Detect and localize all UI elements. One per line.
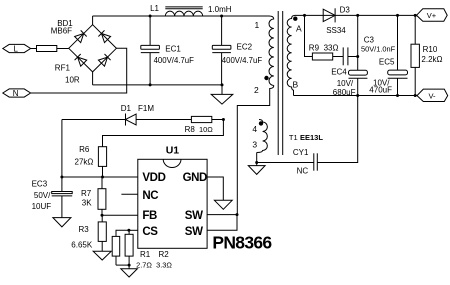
svg-text:L1: L1: [150, 4, 159, 13]
svg-text:3.3Ω: 3.3Ω: [156, 260, 172, 269]
wire primary DC- rail: [93, 84, 222, 86]
junction node EC5 bottom: [396, 94, 399, 97]
svg-text:U1: U1: [166, 144, 180, 156]
svg-text:B: B: [293, 80, 299, 90]
junction node R10 top: [414, 14, 417, 17]
wire RF1 to bridge: [57, 48, 69, 50]
label BD1 MB6F: [51, 19, 74, 36]
resistor R10: [411, 15, 419, 95]
svg-text:NC: NC: [142, 190, 158, 202]
svg-text:N: N: [13, 89, 19, 98]
svg-text:4: 4: [252, 124, 257, 134]
wire L to RF1: [31, 48, 37, 50]
svg-text:6.65K: 6.65K: [71, 241, 93, 250]
capacitor CY1: [314, 153, 318, 170]
svg-text:33Ω: 33Ω: [324, 43, 339, 52]
diode D1: [126, 114, 137, 126]
wire aux pin3 down: [256, 153, 258, 163]
label EC3: [32, 180, 52, 211]
phase dot secondary: [293, 17, 297, 21]
bridge diode lower-left: [75, 54, 87, 66]
svg-text:SW: SW: [185, 226, 203, 238]
svg-text:T1: T1: [289, 133, 298, 142]
wire SW upper to node: [207, 214, 237, 216]
svg-text:C3: C3: [364, 35, 375, 44]
svg-text:CY1: CY1: [293, 148, 309, 157]
svg-text:SW: SW: [185, 210, 203, 222]
svg-text:FB: FB: [142, 210, 157, 222]
svg-text:L: L: [13, 44, 18, 53]
svg-text:EE13L: EE13L: [300, 133, 323, 142]
svg-text:R3: R3: [79, 225, 90, 234]
junction node primary ground: [221, 83, 224, 86]
wire VDD rail to U1: [62, 176, 138, 178]
ground U1 GND: [214, 200, 232, 209]
label RF1 10R: [55, 64, 80, 85]
wire D1 anode side: [136, 119, 191, 121]
svg-text:1: 1: [255, 20, 260, 30]
svg-text:VDD: VDD: [142, 172, 165, 184]
junction node A/R9: [303, 14, 306, 17]
wire CS to R1: [116, 230, 129, 236]
svg-text:V+: V+: [427, 11, 437, 20]
resistor R9: [312, 53, 332, 60]
svg-text:3K: 3K: [82, 198, 92, 207]
capacitor EC4: [349, 15, 368, 95]
junction node EC5 top: [396, 14, 399, 17]
ground EC3: [53, 218, 71, 227]
wire C3 to D3 cathode column: [348, 56, 358, 58]
svg-text:R2: R2: [159, 250, 170, 259]
wire R7 to FB: [101, 209, 103, 215]
svg-text:EC2: EC2: [237, 43, 253, 52]
connector L (AC live input): [3, 44, 31, 53]
ground R1 R2: [121, 265, 138, 277]
junction node EC1/rail: [149, 15, 152, 18]
wire CS to R2: [128, 230, 130, 234]
diode D3: [323, 8, 335, 22]
resistor R3: [98, 215, 106, 241]
junction node R1R2 ground: [128, 264, 131, 267]
svg-text:400V/4.7uF: 400V/4.7uF: [154, 56, 195, 65]
bridge rectifier BD1 outline: [69, 25, 117, 72]
wire node A to R9: [305, 15, 313, 56]
connector N (AC neutral input): [3, 89, 31, 98]
svg-text:2: 2: [254, 85, 259, 95]
junction node C3/EC4 column: [356, 55, 359, 58]
junction node EC3/VDD: [60, 176, 63, 179]
svg-text:10V/: 10V/: [337, 79, 354, 88]
capacitor EC2: [212, 16, 231, 85]
wire R9 to C3: [333, 56, 344, 58]
svg-text:EC4: EC4: [331, 68, 347, 77]
label R8 10Ω: [185, 125, 214, 134]
junction node SW: [236, 213, 239, 216]
svg-text:CS: CS: [142, 226, 158, 238]
svg-text:NC: NC: [297, 167, 309, 176]
svg-text:10UF: 10UF: [32, 202, 52, 211]
wire GND pin to ground: [207, 177, 223, 200]
svg-text:50V/: 50V/: [34, 191, 51, 200]
svg-text:A: A: [296, 23, 302, 33]
resistor R6: [98, 147, 106, 167]
junction node R6/VDD: [101, 176, 104, 179]
svg-text:3: 3: [252, 140, 257, 150]
wire bridge bottom to DC- rail: [92, 72, 94, 85]
wire primary pin2 to SW: [237, 86, 273, 215]
svg-text:400V/4.7uF: 400V/4.7uF: [222, 56, 263, 65]
resistor RF1: [37, 46, 57, 52]
capacitor C3 (snubber): [343, 47, 348, 65]
svg-text:RF1: RF1: [55, 64, 71, 73]
wire CS to U1: [129, 229, 138, 231]
transformer T1 core: [278, 11, 283, 155]
svg-text:R1: R1: [140, 250, 151, 259]
transformer T1 secondary winding: [287, 16, 294, 96]
svg-text:V-: V-: [428, 92, 436, 101]
transformer T1 primary winding: [269, 19, 274, 86]
junction node R10 bottom: [414, 94, 417, 97]
svg-text:EC1: EC1: [165, 44, 181, 53]
resistor R8: [191, 116, 211, 122]
junction node FB: [101, 214, 104, 217]
svg-text:EC5: EC5: [379, 57, 395, 66]
wire VDD node vertical: [61, 120, 63, 178]
wire secondary top rail: [295, 14, 417, 16]
svg-text:470uF: 470uF: [369, 86, 392, 95]
ground R3: [93, 241, 111, 260]
svg-text:R9: R9: [309, 43, 320, 52]
svg-text:R8: R8: [185, 125, 196, 134]
wire R1 R2 bottoms: [116, 256, 129, 265]
wire R8 to aux winding pin 4: [212, 119, 224, 121]
wire secondary bottom rail: [294, 95, 418, 97]
svg-text:R10: R10: [423, 45, 438, 54]
svg-text:EC3: EC3: [32, 180, 48, 189]
svg-text:MB6F: MB6F: [51, 27, 72, 36]
label T1 EE13L: [289, 133, 323, 142]
junction node aux ground: [255, 161, 258, 164]
svg-text:50V/1.0nF: 50V/1.0nF: [361, 45, 396, 54]
transformer T1 aux winding: [257, 120, 268, 153]
resistor R7: [98, 177, 106, 209]
ground aux/CY1: [248, 163, 265, 175]
svg-text:10R: 10R: [65, 75, 80, 84]
phase dot aux: [259, 121, 263, 125]
inductor L1: [165, 7, 202, 16]
svg-text:D3: D3: [340, 6, 351, 15]
capacitor EC1: [141, 16, 160, 85]
junction node D3 cathode: [356, 14, 359, 17]
phase dot primary: [264, 76, 268, 80]
connector V+ output: [417, 9, 448, 21]
svg-text:27kΩ: 27kΩ: [75, 157, 94, 166]
resistor R1: [112, 236, 120, 256]
connector V- output: [417, 89, 448, 101]
svg-text:R7: R7: [81, 189, 92, 198]
resistor R2: [125, 234, 133, 256]
svg-text:PN8366: PN8366: [212, 232, 272, 252]
svg-text:R6: R6: [79, 145, 90, 154]
wire CY1 to secondary ground: [317, 96, 357, 163]
svg-text:F1M: F1M: [138, 104, 154, 113]
op-amp U1 PN8366 body: [138, 159, 207, 248]
label R9 33Ω: [309, 43, 339, 52]
bridge diode upper-left: [75, 30, 87, 42]
junction node EC1 bottom: [149, 83, 152, 86]
wire D1 cathode side: [62, 119, 126, 121]
wire R6 bottom to VDD rail: [102, 166, 104, 177]
bridge diode lower-right: [98, 54, 110, 66]
svg-text:2.2kΩ: 2.2kΩ: [421, 55, 442, 64]
svg-text:1.0mH: 1.0mH: [208, 5, 232, 14]
capacitor EC3: [52, 177, 72, 218]
wire N to bridge right vertex: [31, 48, 127, 93]
svg-text:2.7Ω: 2.7Ω: [136, 260, 152, 269]
svg-text:SS34: SS34: [326, 26, 346, 35]
junction node CS: [127, 229, 130, 232]
wire aux ground to CY1: [257, 162, 314, 164]
junction node R8/R6/aux: [222, 118, 225, 121]
svg-text:D1: D1: [121, 104, 132, 113]
capacitor EC5: [388, 15, 408, 95]
bridge diode upper-right: [98, 30, 110, 42]
svg-text:GND: GND: [183, 172, 207, 184]
junction node EC4 bottom: [356, 94, 359, 97]
wire R6 top to aux node: [103, 120, 224, 147]
wire primary DC+ rail: [93, 16, 274, 19]
ground primary DC-: [211, 85, 233, 104]
wire SW lower to node: [207, 215, 237, 231]
wire FB to U1: [102, 214, 138, 216]
wire bridge top to DC+ rail: [92, 16, 94, 25]
stub NC: [121, 193, 137, 195]
svg-text:10Ω: 10Ω: [199, 125, 213, 134]
junction node EC2/rail: [220, 15, 223, 18]
